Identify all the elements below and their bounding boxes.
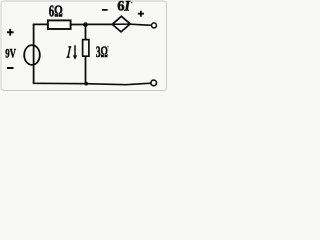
terminal b open circle bottom — [151, 80, 157, 86]
wire left branch vertical — [33, 24, 35, 84]
wire diamond to top terminal — [130, 24, 151, 25]
paper background — [0, 0, 168, 92]
svg-text:3Ω: 3Ω — [96, 44, 108, 61]
speck after 6I — [131, 2, 133, 4]
node B junction dot bottom — [84, 82, 88, 86]
dependent source U1 diamond — [112, 16, 130, 32]
wire top-left segment — [33, 23, 49, 25]
wire middle branch lower — [85, 56, 87, 84]
voltage source V1 circle — [24, 45, 40, 65]
plus sign of dependent source — [138, 11, 144, 17]
speck after 3 ohm — [107, 46, 109, 48]
node A junction dot top — [83, 22, 88, 27]
current arrow I head — [73, 55, 77, 59]
svg-text:6Ω: 6Ω — [49, 2, 63, 21]
wire middle branch upper — [85, 25, 87, 40]
current arrow I shaft — [74, 45, 76, 56]
minus sign of source V1 — [7, 67, 14, 69]
wire box to junction — [71, 24, 86, 26]
wire bottom — [34, 83, 151, 85]
wire junction to diamond — [86, 23, 113, 25]
minus sign of dependent source — [102, 9, 108, 11]
resistor R1 6ohm box — [48, 20, 71, 29]
terminal a open circle top — [152, 23, 157, 28]
plus sign of source V1 — [7, 29, 14, 36]
resistor R2 3ohm box — [83, 40, 89, 57]
label I current — [67, 47, 72, 57]
svg-text:9V: 9V — [5, 47, 16, 61]
svg-text:6: 6 — [117, 0, 124, 15]
wire through diamond — [112, 23, 130, 25]
faint page frame — [1, 1, 167, 91]
